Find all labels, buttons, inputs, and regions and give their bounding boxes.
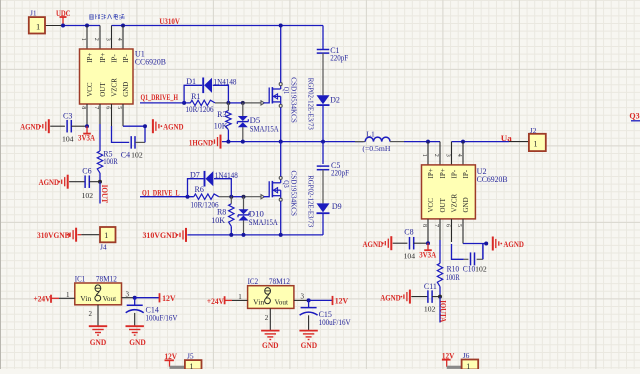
svg-text:GND: GND [129,338,146,347]
svg-text:78M12: 78M12 [269,277,290,286]
svg-text:104: 104 [62,135,74,144]
svg-text:J2: J2 [530,126,537,135]
svg-text:2: 2 [93,38,99,41]
svg-text:AGND: AGND [503,240,524,249]
svg-text:C8: C8 [404,228,413,237]
svg-text:12V: 12V [162,294,176,303]
svg-text:1N4148: 1N4148 [214,78,237,87]
svg-text:4: 4 [456,154,462,157]
svg-text:Q3: Q3 [629,112,639,121]
svg-text:1: 1 [66,291,70,299]
svg-text:+24V: +24V [34,294,51,303]
svg-text:102: 102 [424,305,436,314]
svg-text:GND: GND [301,341,318,350]
svg-text:12V: 12V [335,297,349,306]
svg-text:AGND: AGND [163,123,184,132]
svg-text:104: 104 [404,252,416,261]
svg-text:VCC: VCC [86,82,94,97]
svg-text:VCC: VCC [427,198,435,213]
svg-text:IC2: IC2 [248,277,259,286]
svg-text:Vout: Vout [275,297,289,306]
svg-text:78M12: 78M12 [96,274,117,283]
svg-text:OUT: OUT [99,82,107,97]
svg-text:D9: D9 [332,202,342,211]
svg-text:IP-: IP- [462,169,470,178]
svg-text:GND: GND [122,82,130,97]
svg-text:310VGND: 310VGND [37,231,70,240]
svg-text:C10: C10 [463,265,476,274]
svg-text:1: 1 [534,139,538,148]
svg-text:Q1_DRIVE_L: Q1_DRIVE_L [142,188,180,197]
svg-text:IP-: IP- [122,54,130,63]
svg-text:IP+: IP+ [427,168,435,178]
svg-text:AGND: AGND [20,123,41,132]
svg-text:J6: J6 [463,351,470,360]
svg-text:10R/1206: 10R/1206 [186,105,214,114]
svg-text:R6: R6 [195,185,204,194]
svg-text:6: 6 [105,106,111,109]
svg-text:GND: GND [90,338,107,347]
svg-text:10R/1206: 10R/1206 [191,200,219,209]
svg-text:D10: D10 [249,209,264,218]
svg-text:IP+: IP+ [99,53,107,63]
svg-text:L1: L1 [366,130,375,139]
svg-text:7: 7 [433,224,439,227]
svg-text:1N4148: 1N4148 [215,171,238,180]
svg-text:RGP02-12E-E3/73: RGP02-12E-E3/73 [306,175,314,227]
svg-text:3: 3 [126,291,130,299]
svg-text:3V3A: 3V3A [78,134,95,143]
svg-text:Vin: Vin [80,294,91,303]
svg-text:310VGND: 310VGND [143,231,178,240]
svg-text:VZCR: VZCR [451,194,459,213]
svg-text:SMAJ15A: SMAJ15A [250,124,279,133]
svg-text:D2: D2 [330,96,340,105]
svg-text:Q3: Q3 [282,180,290,188]
svg-text:C11: C11 [424,282,437,291]
svg-text:1: 1 [421,154,427,157]
svg-text:C3: C3 [63,111,72,120]
svg-text:100uF/16V: 100uF/16V [146,314,178,323]
svg-text:IC1: IC1 [75,274,86,283]
svg-text:Q1_DRIVE_H: Q1_DRIVE_H [141,93,179,102]
svg-text:AGND: AGND [39,178,60,187]
svg-text:100R: 100R [446,273,461,282]
svg-text:IP-: IP- [451,169,459,178]
svg-text:1: 1 [238,293,242,301]
svg-text:AGND: AGND [363,240,384,249]
svg-text:220pF: 220pF [331,169,349,178]
svg-text:5: 5 [116,106,122,109]
svg-text:5: 5 [456,224,462,227]
svg-text:100uF/16V: 100uF/16V [319,318,351,327]
svg-text:J1: J1 [30,9,37,18]
svg-text:OUT: OUT [439,197,447,212]
svg-text:CSD19534KCS: CSD19534KCS [289,77,297,123]
svg-text:3: 3 [105,38,111,41]
svg-text:UDC: UDC [56,8,71,18]
svg-text:10K: 10K [211,216,225,225]
svg-text:+24V: +24V [207,297,224,306]
svg-text:IOUTA: IOUTA [439,300,448,322]
svg-text:CSD19534KCS: CSD19534KCS [289,171,297,217]
svg-text:1: 1 [104,231,108,240]
svg-text:D1: D1 [186,77,196,86]
svg-text:(=0.5mH: (=0.5mH [362,144,391,153]
svg-text:R3: R3 [217,110,226,119]
svg-text:102: 102 [131,150,143,159]
svg-text:7: 7 [93,106,99,109]
svg-text:100R: 100R [103,157,118,166]
svg-text:C4: C4 [121,150,130,159]
svg-text:1: 1 [36,21,40,31]
svg-text:C6: C6 [82,166,91,175]
svg-text:GND: GND [262,341,279,350]
svg-text:220pF: 220pF [330,53,348,62]
svg-text:IP-: IP- [111,54,119,63]
svg-text:Q1: Q1 [282,87,290,95]
svg-text:102: 102 [475,265,487,274]
svg-text:RGP02-12E-E3/73: RGP02-12E-E3/73 [306,78,314,130]
svg-text:J5: J5 [187,352,194,361]
svg-text:IP+: IP+ [86,53,94,63]
svg-text:2: 2 [433,154,439,157]
svg-text:2: 2 [265,314,269,322]
svg-text:4: 4 [116,38,122,41]
svg-text:U310V: U310V [159,17,180,26]
svg-text:IOUT: IOUT [100,185,109,204]
svg-text:AGND: AGND [380,294,401,303]
svg-text:CC6920B: CC6920B [135,58,166,67]
svg-text:Vout: Vout [103,294,117,303]
svg-text:2: 2 [89,310,93,318]
svg-text:Vin: Vin [253,297,264,306]
svg-text:SMAJ15A: SMAJ15A [249,218,278,227]
svg-text:1HGND: 1HGND [189,138,213,147]
svg-text:8: 8 [80,106,86,109]
svg-text:CC6920B: CC6920B [477,175,508,184]
svg-text:R1: R1 [191,92,200,101]
svg-text:6: 6 [445,224,451,227]
svg-text:3: 3 [445,154,451,157]
svg-text:3: 3 [301,293,305,301]
svg-text:3V3A: 3V3A [419,251,436,260]
svg-text:J4: J4 [100,243,107,252]
svg-text:GND: GND [462,197,470,212]
svg-text:1: 1 [80,38,86,41]
svg-text:VZCR: VZCR [111,78,119,97]
svg-text:IP+: IP+ [439,168,447,178]
svg-text:1: 1 [466,362,470,369]
svg-text:10K: 10K [214,121,228,130]
svg-text:1: 1 [190,362,194,369]
svg-text:D7: D7 [190,170,200,179]
svg-text:102: 102 [82,191,94,200]
svg-text:8: 8 [421,224,427,227]
